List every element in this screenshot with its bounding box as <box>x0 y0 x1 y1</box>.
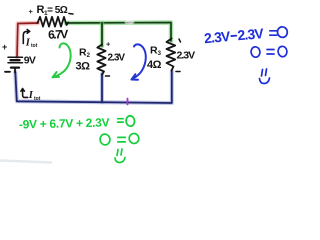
blue !! mark <box>260 69 270 84</box>
svg-text:R1= 5Ω: R1= 5Ω <box>37 4 68 17</box>
resistor R2 zigzag <box>97 45 105 75</box>
label I_tot bottom with arrow <box>21 89 28 98</box>
svg-text:3Ω: 3Ω <box>76 60 91 72</box>
svg-text:-9V + 6.7V + 2.3V: -9V + 6.7V + 2.3V <box>19 115 110 131</box>
resistor R3 zigzag <box>167 39 176 71</box>
svg-text:+: + <box>2 42 7 52</box>
label I_tot top with arrow <box>23 30 29 44</box>
svg-text:4Ω: 4Ω <box>147 59 162 71</box>
green equation line 1: -9V + 6.7V + 2.3V = 0 <box>19 115 110 131</box>
loop arrow 1 (green) <box>53 43 71 77</box>
node smudge pink on top wire <box>125 20 135 24</box>
svg-text:I: I <box>25 37 31 48</box>
battery B1 plates <box>8 56 23 58</box>
svg-text:I: I <box>28 90 34 101</box>
svg-text:2.3V: 2.3V <box>108 53 126 64</box>
svg-text:2.3V: 2.3V <box>177 49 196 61</box>
resistor R1 zigzag <box>38 17 69 27</box>
node marker magenta on bottom wire <box>127 99 129 105</box>
svg-text:tot: tot <box>31 43 38 49</box>
green equation line 2: 0 = 0 <box>99 133 139 146</box>
wire: top green segment R1 to top-right corner, down to R3 (halo) <box>66 23 171 42</box>
wire: bottom navy rail with left and right risers and middle stub (halo) <box>15 71 172 103</box>
label - (R2) <box>106 75 110 77</box>
svg-text:2.3V: 2.3V <box>237 25 265 43</box>
wire: middle branch top stub green (core) <box>101 23 103 46</box>
svg-text:tot: tot <box>34 96 41 102</box>
svg-text:6.7V: 6.7V <box>48 27 69 42</box>
svg-text:2.3V: 2.3V <box>203 28 231 46</box>
loop arrow 2 (blue) <box>132 44 146 79</box>
blue equation line 2: 0 = 0 <box>250 46 287 58</box>
svg-text:+: + <box>29 7 34 16</box>
label + (R3) <box>179 39 181 42</box>
wire: battery branch top (red halo) <box>17 23 38 57</box>
wire: middle branch top stub green (halo) <box>100 23 105 46</box>
wire: battery branch top (red core) <box>17 23 38 57</box>
faint smudge streak bottom-left <box>0 161 52 163</box>
green !! mark <box>115 149 125 163</box>
label - (battery) <box>5 71 10 73</box>
wire: bottom navy (core) <box>15 71 172 103</box>
label - (R3) <box>176 71 180 73</box>
blue equation line 1: 2.3V - 2.3V = 0 <box>203 25 265 46</box>
svg-text:9V: 9V <box>24 55 36 67</box>
wire: top green segment (core) <box>66 23 171 42</box>
label - (R1 right polarity) <box>69 13 73 16</box>
svg-text:+: + <box>106 40 111 49</box>
